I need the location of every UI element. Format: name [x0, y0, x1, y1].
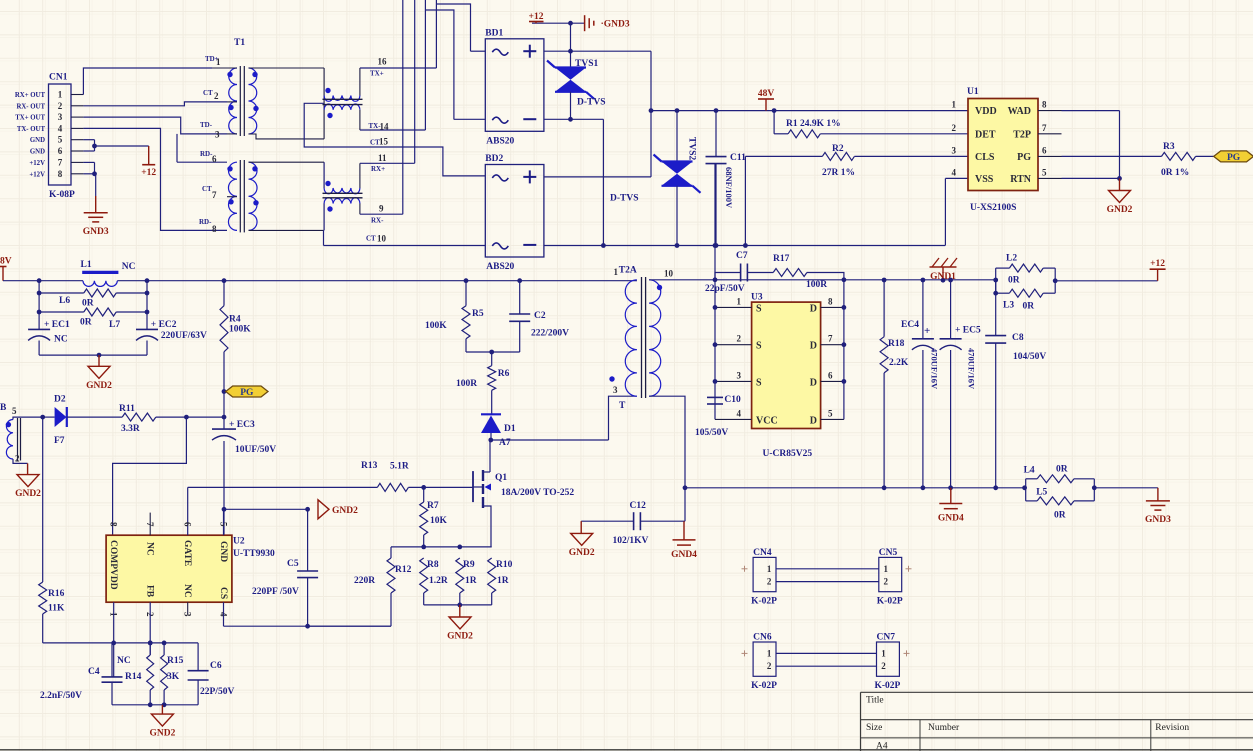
svg-text:RX+ OUT: RX+ OUT	[15, 92, 46, 99]
svg-text:2: 2	[881, 661, 886, 671]
svg-text:+ EC1: + EC1	[44, 320, 70, 330]
svg-text:2: 2	[767, 661, 772, 671]
svg-text:6: 6	[183, 522, 193, 527]
svg-text:470UF/16V: 470UF/16V	[930, 348, 940, 390]
svg-text:T2P: T2P	[1013, 129, 1031, 140]
svg-text:5: 5	[12, 406, 17, 416]
svg-text:D-TVS: D-TVS	[610, 194, 639, 204]
svg-text:1: 1	[952, 100, 957, 110]
svg-text:R4: R4	[229, 315, 241, 325]
svg-text:7: 7	[212, 190, 217, 200]
svg-text:27R 1%: 27R 1%	[822, 168, 855, 178]
svg-text:L5: L5	[1036, 488, 1047, 498]
svg-text:WAD: WAD	[1008, 106, 1031, 117]
svg-text:DET: DET	[975, 129, 996, 140]
svg-text:18A/200V TO-252: 18A/200V TO-252	[501, 488, 574, 498]
svg-text:Number: Number	[928, 723, 960, 733]
svg-text:D: D	[810, 303, 817, 314]
svg-text:ABS20: ABS20	[486, 262, 514, 272]
svg-text:5: 5	[58, 135, 63, 145]
svg-text:2.2nF/50V: 2.2nF/50V	[40, 691, 82, 701]
svg-text:GND: GND	[218, 541, 228, 562]
svg-text:CS: CS	[218, 587, 228, 599]
svg-text:2: 2	[952, 123, 957, 133]
svg-text:U3: U3	[751, 293, 763, 303]
svg-text:U2: U2	[233, 537, 245, 547]
svg-text:10: 10	[377, 234, 387, 244]
svg-text:1: 1	[884, 564, 889, 574]
svg-text:+ EC3: + EC3	[229, 420, 255, 430]
svg-text:U-XS2100S: U-XS2100S	[970, 203, 1016, 213]
svg-text:0R 1%: 0R 1%	[1161, 168, 1189, 178]
svg-text:7: 7	[1042, 123, 1047, 133]
svg-text:+12: +12	[141, 168, 156, 178]
svg-text:C8: C8	[1012, 333, 1024, 343]
svg-text:PG: PG	[1017, 152, 1031, 163]
svg-text:R11: R11	[119, 404, 135, 414]
svg-text:GND4: GND4	[938, 514, 964, 524]
svg-text:TVS1: TVS1	[575, 59, 598, 69]
svg-text:1: 1	[767, 564, 772, 574]
svg-text:6: 6	[58, 146, 63, 156]
svg-text:TX- OUT: TX- OUT	[17, 126, 46, 133]
svg-text:D1: D1	[504, 424, 516, 434]
svg-text:0R: 0R	[1056, 465, 1068, 475]
svg-text:7: 7	[58, 157, 63, 167]
svg-text:L3: L3	[1003, 300, 1014, 310]
svg-text:PG: PG	[240, 388, 254, 398]
svg-text:R18: R18	[888, 339, 905, 349]
svg-text:K-02P: K-02P	[751, 681, 777, 691]
svg-text:R14: R14	[125, 672, 142, 682]
svg-text:TVS2: TVS2	[687, 137, 697, 160]
svg-text:VCC: VCC	[756, 415, 778, 426]
svg-text:D-TVS: D-TVS	[577, 98, 606, 108]
svg-text:2: 2	[58, 101, 63, 111]
svg-text:8: 8	[828, 296, 833, 306]
svg-text:1: 1	[58, 90, 63, 100]
svg-text:7: 7	[145, 522, 155, 527]
svg-text:C4: C4	[88, 667, 100, 677]
svg-text:10: 10	[664, 269, 674, 279]
svg-text:EC4: EC4	[901, 320, 919, 330]
svg-text:8V: 8V	[0, 257, 12, 267]
svg-text:6: 6	[828, 370, 833, 380]
svg-text:R3: R3	[1163, 142, 1175, 152]
svg-text:L1: L1	[81, 260, 92, 270]
svg-text:NC: NC	[182, 584, 192, 598]
svg-text:11: 11	[378, 153, 387, 163]
svg-text:CN1: CN1	[49, 73, 68, 83]
svg-text:R9: R9	[463, 560, 475, 570]
svg-text:Q1: Q1	[495, 473, 507, 483]
svg-text:CT: CT	[366, 235, 376, 243]
svg-text:Size: Size	[866, 723, 882, 733]
svg-text:VSS: VSS	[975, 174, 994, 185]
svg-text:5: 5	[828, 408, 833, 418]
svg-text:C12: C12	[630, 501, 647, 511]
svg-text:2: 2	[884, 577, 889, 587]
svg-text:T: T	[619, 401, 626, 411]
svg-text:3: 3	[737, 370, 742, 380]
svg-text:3: 3	[58, 112, 63, 122]
svg-text:S: S	[756, 341, 762, 352]
svg-text:NC: NC	[122, 262, 136, 272]
svg-text:NC: NC	[145, 542, 155, 556]
svg-text:GND2: GND2	[569, 548, 595, 558]
svg-text:+12: +12	[1150, 259, 1165, 269]
svg-text:0R: 0R	[80, 318, 92, 328]
svg-text:GND4: GND4	[671, 550, 697, 560]
svg-text:220PF /50V: 220PF /50V	[252, 587, 299, 597]
svg-text:C6: C6	[210, 661, 222, 671]
svg-text:D: D	[810, 377, 817, 388]
svg-text:VDD: VDD	[975, 106, 997, 117]
svg-text:R8: R8	[427, 560, 439, 570]
svg-text:R5: R5	[472, 309, 484, 319]
svg-text:GND2: GND2	[332, 506, 358, 516]
svg-text:K-02P: K-02P	[751, 596, 777, 606]
svg-text:R6: R6	[498, 369, 510, 379]
svg-text:1: 1	[614, 267, 619, 277]
svg-text:8: 8	[1042, 100, 1047, 110]
svg-text:104/50V: 104/50V	[1013, 352, 1046, 362]
svg-text:K-02P: K-02P	[877, 596, 903, 606]
svg-text:CN6: CN6	[753, 633, 772, 643]
svg-text:T2A: T2A	[619, 266, 637, 276]
svg-text:C10: C10	[724, 395, 741, 405]
svg-text:L6: L6	[59, 296, 70, 306]
svg-text:5: 5	[1042, 167, 1047, 177]
svg-text:0R: 0R	[1054, 511, 1066, 521]
svg-text:K-08P: K-08P	[49, 190, 75, 200]
svg-text:5.1R: 5.1R	[390, 462, 409, 472]
svg-text:14: 14	[380, 122, 390, 132]
svg-text:GND2: GND2	[447, 632, 473, 642]
svg-text:R17: R17	[773, 254, 790, 264]
svg-text:BD1: BD1	[485, 28, 503, 38]
svg-text:R13: R13	[361, 461, 378, 471]
svg-text:RD-: RD-	[199, 218, 212, 226]
svg-text:GND2: GND2	[1107, 205, 1133, 215]
svg-text:+12: +12	[529, 12, 544, 22]
svg-text:0R: 0R	[82, 299, 94, 309]
svg-text:3: 3	[215, 130, 220, 140]
svg-text:2.2K: 2.2K	[889, 358, 909, 368]
svg-text:GATE: GATE	[182, 540, 192, 566]
svg-text:D2: D2	[54, 395, 66, 405]
svg-text:15: 15	[379, 137, 389, 147]
svg-text:BD2: BD2	[485, 154, 503, 164]
svg-text:10K: 10K	[430, 516, 448, 526]
svg-text:100R: 100R	[806, 280, 827, 290]
svg-text:PG: PG	[1227, 153, 1241, 163]
svg-text:+12V: +12V	[29, 160, 45, 167]
svg-text:4: 4	[952, 167, 957, 177]
svg-text:1R: 1R	[465, 576, 477, 586]
svg-text:9: 9	[379, 204, 384, 214]
svg-text:R15: R15	[167, 656, 184, 666]
svg-text:10UF/50V: 10UF/50V	[235, 445, 276, 455]
svg-text:GND3: GND3	[83, 227, 109, 237]
svg-text:Title: Title	[866, 696, 884, 706]
svg-text:R12: R12	[395, 565, 412, 575]
svg-text:0R: 0R	[1023, 301, 1035, 311]
svg-text:D: D	[810, 415, 817, 426]
svg-text:C2: C2	[534, 311, 546, 321]
svg-text:CLS: CLS	[975, 152, 995, 163]
svg-text:CN4: CN4	[753, 548, 772, 558]
svg-text:7: 7	[828, 334, 833, 344]
svg-text:5: 5	[219, 522, 229, 527]
svg-text:D: D	[810, 341, 817, 352]
svg-text:TX+ OUT: TX+ OUT	[15, 115, 45, 122]
svg-text:GND2: GND2	[15, 489, 41, 499]
svg-text:1R: 1R	[497, 576, 509, 586]
svg-text:GND: GND	[30, 137, 45, 144]
svg-text:C7: C7	[736, 251, 748, 261]
svg-text:8: 8	[58, 169, 63, 179]
svg-text:+ EC2: + EC2	[151, 320, 177, 330]
svg-text:+: +	[924, 325, 930, 337]
svg-text:22P/50V: 22P/50V	[200, 687, 234, 697]
svg-text:100R: 100R	[456, 379, 477, 389]
svg-text:CT: CT	[202, 185, 212, 193]
svg-text:R2: R2	[832, 144, 844, 154]
svg-text:COMPVDD: COMPVDD	[108, 540, 118, 590]
svg-text:TD-: TD-	[200, 121, 213, 129]
svg-text:C11: C11	[730, 153, 746, 163]
svg-text:GND2: GND2	[86, 381, 112, 391]
svg-text:NC: NC	[117, 656, 131, 666]
svg-text:F7: F7	[54, 436, 65, 446]
svg-text:R16: R16	[48, 589, 65, 599]
svg-text:R1 24.9K 1%: R1 24.9K 1%	[786, 119, 841, 129]
svg-text:R10: R10	[496, 560, 513, 570]
svg-text:3.3R: 3.3R	[121, 424, 140, 434]
svg-text:220UF/63V: 220UF/63V	[161, 331, 207, 341]
svg-text:ABS20: ABS20	[486, 136, 514, 146]
svg-text:2: 2	[15, 454, 20, 464]
svg-text:Revision: Revision	[1155, 723, 1189, 733]
svg-text:48V: 48V	[758, 89, 775, 99]
svg-text:8: 8	[109, 522, 119, 527]
svg-text:22pF/50V: 22pF/50V	[705, 284, 745, 294]
svg-text:1: 1	[881, 648, 886, 658]
svg-text:2: 2	[214, 91, 219, 101]
svg-text:L2: L2	[1006, 254, 1017, 264]
svg-text:2: 2	[737, 334, 742, 344]
svg-text:4: 4	[737, 408, 742, 418]
svg-text:CN5: CN5	[879, 548, 898, 558]
svg-text:2: 2	[767, 577, 772, 587]
svg-text:NC: NC	[54, 335, 68, 345]
svg-text:11K: 11K	[48, 604, 65, 614]
svg-text:RX-: RX-	[371, 217, 384, 225]
svg-text:L7: L7	[109, 320, 120, 330]
svg-text:U1: U1	[967, 87, 979, 97]
svg-text:6: 6	[1042, 145, 1047, 155]
svg-text:GND2: GND2	[149, 729, 175, 739]
svg-text:·GND3: ·GND3	[601, 20, 630, 30]
svg-text:105/50V: 105/50V	[695, 428, 728, 438]
svg-text:GND: GND	[30, 149, 45, 156]
svg-text:L4: L4	[1024, 466, 1035, 476]
svg-text:8: 8	[212, 224, 217, 234]
svg-text:4: 4	[58, 123, 63, 133]
svg-text:6: 6	[212, 154, 217, 164]
svg-text:220R: 220R	[354, 576, 375, 586]
svg-text:16: 16	[378, 57, 388, 67]
svg-text:+ EC5: + EC5	[955, 326, 981, 336]
svg-text:470UF/16V: 470UF/16V	[967, 348, 977, 390]
svg-text:0R: 0R	[1008, 275, 1020, 285]
svg-text:U-TT9930: U-TT9930	[233, 549, 275, 559]
svg-text:T1: T1	[234, 38, 245, 48]
svg-text:S: S	[756, 303, 762, 314]
svg-text:1: 1	[767, 648, 772, 658]
svg-text:K-02P: K-02P	[875, 681, 901, 691]
svg-text:CN7: CN7	[877, 633, 896, 643]
svg-text:1.2R: 1.2R	[429, 576, 448, 586]
svg-text:C5: C5	[287, 559, 299, 569]
svg-text:GND3: GND3	[1145, 515, 1171, 525]
svg-text:S: S	[756, 377, 762, 388]
svg-text:B: B	[0, 403, 7, 413]
svg-text:TX+: TX+	[370, 70, 384, 78]
svg-text:RX+: RX+	[371, 165, 385, 173]
svg-text:+12V: +12V	[29, 171, 45, 178]
svg-text:U-CR85V25: U-CR85V25	[763, 449, 813, 459]
svg-text:100K: 100K	[425, 321, 447, 331]
svg-text:102/1KV: 102/1KV	[613, 536, 649, 546]
svg-text:3: 3	[613, 385, 618, 395]
svg-text:100K: 100K	[229, 325, 251, 335]
svg-text:68NF/100V: 68NF/100V	[724, 167, 734, 209]
svg-text:R7: R7	[427, 501, 439, 511]
svg-text:1: 1	[737, 296, 742, 306]
svg-text:FB: FB	[145, 585, 155, 598]
svg-text:222/200V: 222/200V	[531, 329, 569, 339]
svg-text:3K: 3K	[167, 672, 180, 682]
svg-text:RX- OUT: RX- OUT	[16, 103, 45, 110]
svg-text:1: 1	[216, 57, 221, 67]
svg-text:RTN: RTN	[1010, 174, 1032, 185]
svg-text:CT: CT	[203, 89, 213, 97]
svg-text:3: 3	[952, 145, 957, 155]
